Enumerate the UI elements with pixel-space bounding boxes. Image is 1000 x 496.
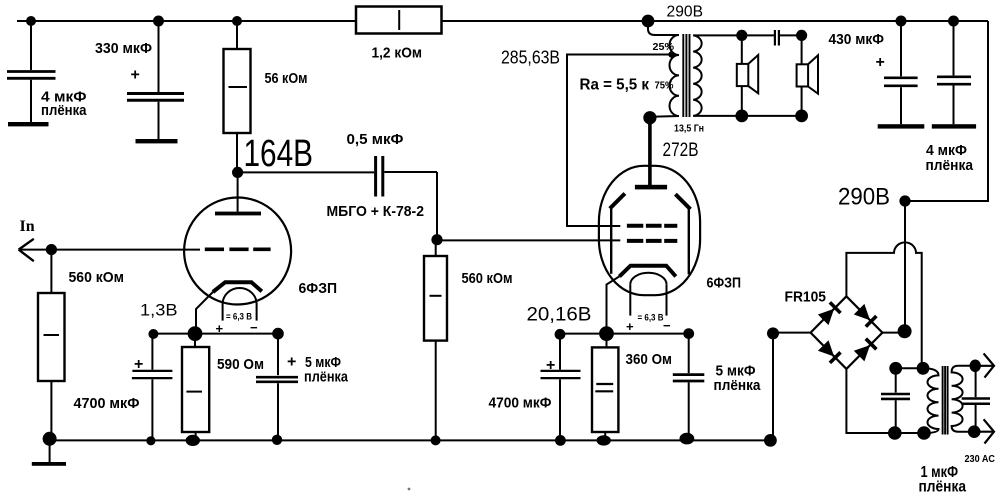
svg-text:+: + bbox=[546, 357, 555, 374]
svg-text:= 6,3 В: = 6,3 В bbox=[638, 313, 664, 323]
svg-text:МБГО + К-78-2: МБГО + К-78-2 bbox=[327, 203, 425, 220]
junction bridge minus bbox=[767, 327, 779, 339]
wire grid V2 bbox=[437, 239, 620, 241]
screen grid dashes V1b bbox=[627, 224, 677, 228]
junction T2 secondary bottom bbox=[968, 425, 981, 438]
svg-text:Ra = 5,5 к: Ra = 5,5 к bbox=[580, 77, 650, 94]
svg-text:плёнка: плёнка bbox=[41, 102, 87, 119]
junction top rail / C2 bbox=[153, 16, 164, 27]
anode plate structure V1b bbox=[610, 194, 691, 275]
junction speaker 1 top bbox=[736, 30, 747, 41]
svg-text:4700 мкФ: 4700 мкФ bbox=[489, 395, 552, 412]
value label 5 мкФ плёнка bbox=[714, 363, 762, 395]
control grid dashes V1b bbox=[627, 239, 677, 243]
svg-text:6ФЗП: 6ФЗП bbox=[299, 280, 338, 297]
transformer T2 core bbox=[943, 366, 948, 435]
transformer T1 core bbox=[683, 34, 689, 117]
junction bridge plus bbox=[898, 324, 912, 338]
diode D2 top-right bbox=[854, 304, 877, 327]
svg-text:430 мкФ: 430 мкФ bbox=[829, 31, 885, 48]
junction bottom rail / C4 bbox=[146, 436, 155, 445]
value label 4 мкФ плёнка bbox=[41, 89, 87, 120]
wire transformer primary top link bbox=[896, 367, 923, 369]
transformer T1 secondary winding bbox=[693, 35, 701, 116]
junction T2 secondary top bbox=[970, 360, 981, 373]
junction anode V1b / OT primary bbox=[643, 111, 656, 124]
ground symbol bottom left bbox=[49, 439, 51, 463]
svg-text:285,63В: 285,63В bbox=[501, 48, 560, 68]
junction top rail / OT primary bbox=[642, 15, 655, 28]
wire anode V1a up bbox=[237, 172, 239, 211]
ground bar under C1 bbox=[8, 122, 49, 126]
junction bottom rail left bbox=[43, 432, 57, 446]
speck artifact bbox=[408, 488, 411, 491]
diode D3 bottom-left bbox=[818, 340, 841, 363]
junction cathode V1 / R5 bbox=[188, 326, 203, 341]
ground bar under C8 bbox=[878, 124, 925, 128]
junction 25% tap bbox=[668, 51, 674, 57]
junction bottom rail / R6 bbox=[597, 435, 611, 445]
junction top rail / C1 bbox=[26, 16, 36, 26]
svg-text:20,16В: 20,16В bbox=[527, 305, 592, 326]
value label 1 мкФ плёнка bbox=[919, 464, 967, 496]
capacitor C6 4700 мкФ bbox=[541, 334, 581, 440]
cathode V1a bbox=[213, 282, 262, 292]
anode top-cap bar V1b bbox=[635, 185, 667, 190]
wire cathode rail V1 bbox=[153, 333, 278, 335]
junction top rail / R1 bbox=[232, 16, 242, 26]
junction T2 primary top right bbox=[917, 362, 930, 375]
wire feedback 25% tap to screen grid bbox=[567, 55, 672, 227]
wire bridge plus to 290В bbox=[882, 201, 905, 333]
junction T2 primary bottom left bbox=[888, 426, 902, 440]
svg-text:+: + bbox=[287, 354, 296, 371]
grid dashes V1a bbox=[205, 247, 271, 251]
capacitor C2 330 мкФ bbox=[127, 21, 184, 139]
capacitor C9 4 мкФ плёнка filter bbox=[937, 21, 971, 124]
svg-text:= 6,3 В: = 6,3 В bbox=[226, 312, 252, 322]
junction top rail / C8 bbox=[896, 16, 907, 27]
svg-text:290В: 290В bbox=[838, 184, 890, 211]
wire cathode V1b tail bbox=[607, 276, 620, 333]
svg-text:56 кОм: 56 кОм bbox=[265, 71, 308, 87]
junction T2 primary top left bbox=[889, 362, 902, 375]
value label 5 мкФ плёнка bbox=[304, 354, 349, 386]
junction bottom rail / R5 bbox=[186, 435, 200, 446]
heater V2 dome bbox=[630, 273, 666, 316]
junction bottom rail / C7 bbox=[680, 433, 695, 445]
input arrow In bbox=[19, 239, 200, 261]
wire anode V1b up to OT bbox=[648, 118, 652, 185]
wire bottom ground rail bbox=[50, 439, 771, 441]
svg-text:164В: 164В bbox=[244, 133, 314, 175]
junction cathode rail / C5 bbox=[272, 328, 284, 340]
svg-text:75%: 75% bbox=[655, 80, 675, 92]
svg-text:272В: 272В bbox=[663, 140, 699, 161]
junction cathode rail / C4 bbox=[148, 329, 158, 339]
ground bar under C2 bbox=[136, 139, 178, 143]
svg-text:+: + bbox=[876, 54, 885, 71]
terminal arrow 230 AC bottom bbox=[974, 419, 994, 443]
svg-text:−: − bbox=[663, 318, 671, 333]
wire bridge AC top with hop to transformer bbox=[846, 242, 921, 368]
svg-text:In: In bbox=[20, 218, 35, 235]
speaker LS1 bbox=[737, 35, 758, 116]
ground bar under C9 bbox=[932, 124, 976, 128]
capacitor C4 4700 мкФ bbox=[132, 334, 173, 440]
wire secondary top to speakers bbox=[693, 34, 801, 36]
speaker LS2 bbox=[797, 35, 818, 116]
capacitor C1 4 мкФ плёнка bbox=[7, 21, 56, 122]
svg-text:25%: 25% bbox=[653, 41, 675, 53]
diode D1 top-left bbox=[818, 302, 841, 325]
junction bottom rail / C6 bbox=[555, 435, 566, 446]
bridge rectifier FR105 diamond bbox=[811, 296, 883, 369]
svg-text:6ФЗП: 6ФЗП bbox=[707, 275, 742, 292]
resistor R1 56 кОм bbox=[224, 21, 251, 172]
heater V1 dome bbox=[223, 288, 257, 321]
svg-text:590 Ом: 590 Ом bbox=[217, 356, 264, 373]
transformer T2 power primary winding bbox=[923, 368, 939, 433]
capacitor crossover tweeter bbox=[775, 30, 779, 46]
svg-text:FR105: FR105 bbox=[785, 289, 827, 306]
junction node 164В bbox=[232, 167, 243, 178]
svg-text:плёнка: плёнка bbox=[926, 157, 974, 174]
svg-text:плёнка: плёнка bbox=[304, 369, 349, 386]
resistor R6 360 Ом cathode bbox=[592, 334, 618, 441]
resistor R5 590 Ом cathode bbox=[182, 334, 209, 441]
capacitor C10 1 мкФ плёнка snubber bbox=[881, 368, 910, 433]
junction bottom rail / C5 bbox=[272, 435, 282, 445]
svg-text:560 кОм: 560 кОм bbox=[462, 270, 513, 287]
junction input / R3 bbox=[46, 244, 57, 255]
wire cathode rail V2 bbox=[560, 333, 689, 335]
value label 4 мкФ плёнка bbox=[926, 142, 974, 174]
transformer T2 secondary winding bbox=[952, 366, 976, 432]
wire cathode V1a tail bbox=[196, 292, 213, 334]
svg-text:+: + bbox=[626, 319, 634, 334]
wire secondary bottom to speakers bbox=[693, 115, 801, 117]
capacitor mains X across 230 AC bbox=[962, 366, 990, 432]
junction cathode rail / C6 bbox=[555, 329, 566, 340]
junction speaker 2 bottom bbox=[795, 110, 808, 123]
junction top rail / C9 bbox=[948, 16, 959, 27]
wire right edge down to 290V node bbox=[905, 21, 988, 331]
cathode V1b bbox=[619, 266, 675, 277]
svg-text:330 мкФ: 330 мкФ bbox=[95, 40, 152, 57]
svg-text:0,5 мкФ: 0,5 мкФ bbox=[347, 131, 404, 148]
transformer T1 output primary winding Ra bbox=[648, 21, 679, 117]
svg-text:+: + bbox=[134, 356, 143, 373]
junction grid V2 node bbox=[431, 234, 442, 245]
svg-text:1,2 кОм: 1,2 кОм bbox=[372, 45, 423, 62]
resistor R2 1,2 кОм plate decoupling bbox=[356, 7, 442, 34]
wire top B+ rail bbox=[17, 20, 988, 22]
junction T2 primary bottom right bbox=[917, 426, 931, 440]
junction speaker 1 bottom bbox=[735, 110, 748, 123]
junction ground rail right end bbox=[764, 434, 777, 447]
resistor R3 560 кОм grid leak bbox=[38, 250, 65, 439]
anode bar V1a bbox=[215, 212, 261, 216]
terminal arrow 230 AC top bbox=[975, 353, 994, 377]
wire bridge AC bottom to transformer bbox=[846, 369, 924, 433]
capacitor C8 430 мкФ filter bbox=[884, 21, 918, 124]
svg-text:230 AC: 230 AC bbox=[965, 453, 996, 465]
junction 290В node bbox=[899, 195, 910, 206]
capacitor C5 5 мкФ плёнка bbox=[256, 334, 298, 441]
svg-text:13,5 Гн: 13,5 Гн bbox=[674, 123, 704, 135]
capacitor C7 5 мкФ плёнка bbox=[673, 334, 705, 439]
junction speaker 2 top bbox=[796, 30, 807, 41]
svg-text:4700 мкФ: 4700 мкФ bbox=[74, 395, 140, 412]
svg-text:плёнка: плёнка bbox=[919, 479, 967, 496]
svg-text:560 кОм: 560 кОм bbox=[69, 269, 125, 286]
junction cathode rail / C7 bbox=[683, 328, 694, 339]
svg-text:360 Ом: 360 Ом bbox=[626, 351, 673, 368]
wire anode V1a to coupling cap bbox=[238, 171, 374, 173]
svg-text:+: + bbox=[131, 67, 140, 84]
wire bridge minus to ground rail bbox=[773, 333, 811, 441]
tube V1b 6Ф3П pentode envelope bbox=[599, 166, 700, 295]
capacitor C3 0,5 мкФ coupling bbox=[376, 156, 437, 240]
svg-text:290В: 290В bbox=[667, 4, 704, 21]
wire input to grid V1a bbox=[19, 249, 200, 251]
junction cathode V2 / R6 bbox=[599, 326, 614, 341]
diode D4 bottom-right bbox=[854, 339, 877, 362]
svg-text:плёнка: плёнка bbox=[714, 377, 762, 394]
resistor R4 560 кОм grid leak V2 bbox=[424, 240, 447, 441]
junction bottom rail / R4 bbox=[431, 435, 441, 445]
svg-text:1,3В: 1,3В bbox=[140, 301, 178, 320]
tube V1a 6Ф3П triode envelope bbox=[184, 198, 291, 305]
